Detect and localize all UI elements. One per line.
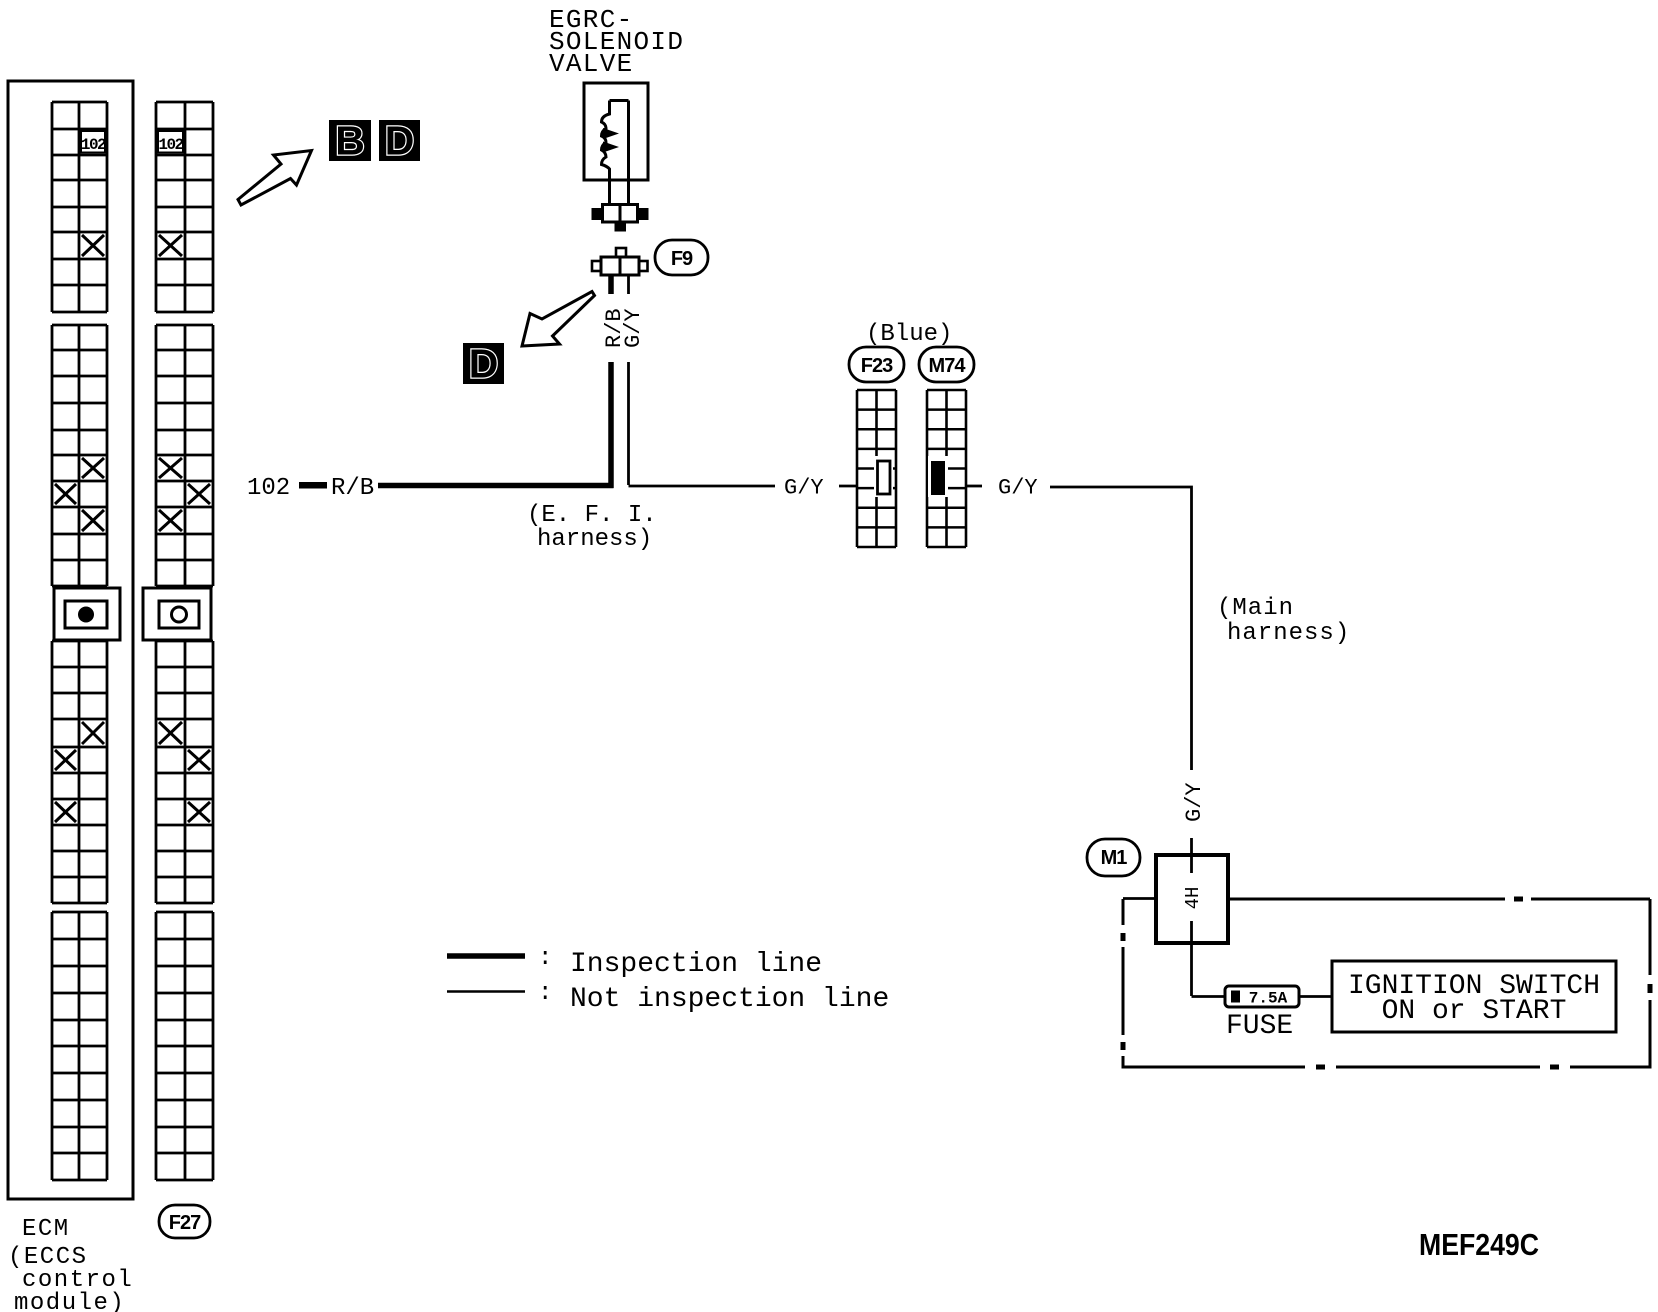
svg-text:ON or START: ON or START [1382,996,1567,1027]
svg-text:module): module) [14,1290,125,1312]
svg-text:D: D [469,341,499,387]
svg-text:M1: M1 [1101,847,1128,869]
svg-text:Inspection line: Inspection line [570,949,822,980]
svg-text:ECM: ECM [22,1216,70,1243]
svg-text:Not inspection line: Not inspection line [570,984,889,1015]
svg-text:G/Y: G/Y [998,476,1038,501]
svg-text:102: 102 [247,475,290,502]
svg-text:F9: F9 [671,248,693,270]
svg-text:harness): harness) [537,526,652,553]
svg-text:F23: F23 [861,355,893,377]
svg-text:FUSE: FUSE [1226,1011,1293,1042]
svg-text:102: 102 [81,136,106,154]
svg-text::: : [538,945,552,972]
svg-text:7.5A: 7.5A [1249,990,1288,1008]
svg-text:D: D [385,118,415,164]
svg-text:(E. F. I.: (E. F. I. [527,502,657,529]
svg-text:F27: F27 [169,1212,201,1234]
svg-text:VALVE: VALVE [549,49,634,79]
svg-text:MEF249C: MEF249C [1419,1227,1539,1262]
svg-text:(Main: (Main [1217,595,1294,622]
svg-text:B: B [335,118,365,164]
svg-text:102: 102 [158,136,183,154]
svg-text:G/Y: G/Y [784,476,824,501]
svg-text:G/Y: G/Y [1182,782,1207,822]
svg-text:4H: 4H [1182,887,1204,910]
svg-text::: : [538,980,552,1007]
svg-text:R/B: R/B [331,475,374,502]
svg-text:harness): harness) [1227,620,1350,647]
svg-text:M74: M74 [929,355,967,377]
svg-text:(Blue): (Blue) [866,321,952,348]
svg-text:G/Y: G/Y [621,308,646,348]
